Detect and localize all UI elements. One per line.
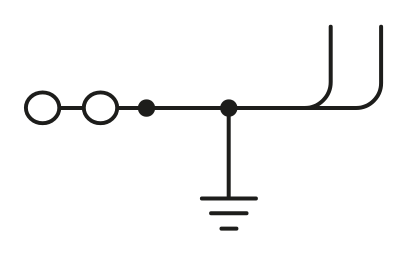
wire between contact circles (43, 106, 101, 110)
ground bar 1 (202, 197, 256, 201)
contact circle 2 (84, 92, 117, 123)
junction dot 2 (220, 99, 237, 116)
wire: vertical lead to ground (227, 108, 231, 199)
junction dot 1 (138, 99, 155, 116)
wire: main conductor from contact 2 with outer curve up to top right (101, 27, 382, 108)
ground bar 3 (222, 227, 237, 231)
wire: branch conductor with inner curve up (290, 27, 331, 108)
ground bar 2 (211, 211, 246, 215)
contact circle 1 (26, 92, 59, 123)
